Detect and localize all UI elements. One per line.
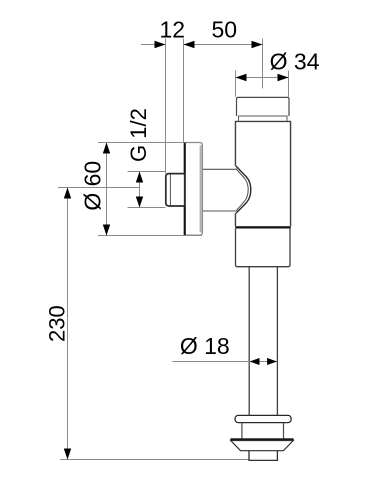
skirt dark top line <box>230 438 293 440</box>
extension line left of dim 12 (spout edge) <box>165 39 167 174</box>
inlet pipe top line <box>202 168 236 170</box>
G1/2 spout nipple <box>166 174 185 206</box>
dim G1/2 top extension <box>128 171 166 173</box>
dim G1/2 down arrow <box>136 197 143 208</box>
outlet pipe left wall <box>248 267 250 416</box>
dim O34 left arrow <box>236 74 247 81</box>
dim 230 line <box>67 188 69 460</box>
dim O60 line <box>106 143 108 236</box>
dim O18 leader <box>173 361 278 363</box>
svg-text:Ø 18: Ø 18 <box>180 333 230 359</box>
inlet pipe bottom line <box>202 210 236 212</box>
wall flange escutcheon <box>184 143 202 236</box>
dim O60 up arrow <box>103 143 110 154</box>
flange rear grey shading <box>200 145 202 232</box>
valve upper body <box>236 122 291 227</box>
skirt trapezoid <box>231 441 294 451</box>
dim O60 down arrow <box>103 225 110 236</box>
dim O18 right arrow <box>267 358 277 365</box>
dim 230 up arrow <box>64 188 71 199</box>
dim O18 left arrow <box>250 358 260 365</box>
svg-text:G 1/2: G 1/2 <box>126 108 151 162</box>
dim 230 top extension <box>58 187 140 189</box>
valve top cap <box>237 97 290 116</box>
dim 50 line <box>184 44 263 46</box>
bottom flange neck right <box>283 423 285 439</box>
svg-text:50: 50 <box>212 17 238 43</box>
dim 50 left arrow <box>184 41 195 48</box>
svg-text:230: 230 <box>44 305 69 342</box>
dim 50 right arrow <box>252 41 263 48</box>
dim O60 top extension <box>98 142 185 144</box>
svg-text:12: 12 <box>160 17 186 43</box>
bottom outlet stub <box>249 451 277 461</box>
spout inner line <box>169 174 171 205</box>
svg-text:Ø 34: Ø 34 <box>270 48 320 74</box>
extension line right of dim 50 (pipe centre) <box>262 39 264 89</box>
cone bulge inner curve <box>236 169 248 211</box>
extension line between dim 12 and 50 (flange face) <box>183 39 185 143</box>
cap neck groove <box>239 116 288 122</box>
dim O34 left extension <box>235 71 237 97</box>
bottom flange neck left <box>241 423 243 439</box>
svg-text:Ø 60: Ø 60 <box>80 161 106 211</box>
dim G1/2 line <box>139 172 141 208</box>
cone bulge outer curve <box>236 166 251 213</box>
dim G1/2 bottom extension <box>128 207 166 209</box>
dim 12 arrow <box>155 41 166 48</box>
dim O60 bottom extension <box>98 235 202 237</box>
bottom flange top bar <box>235 415 291 422</box>
dim O34 right extension <box>288 71 290 97</box>
dark separation band <box>235 226 290 228</box>
dim 12 leader tail <box>141 44 165 46</box>
valve lower body <box>236 229 291 267</box>
dim O34 line <box>236 77 289 79</box>
dim O34 right arrow <box>278 74 289 81</box>
dim 230 bottom extension <box>60 459 249 461</box>
dim G1/2 up arrow <box>136 172 143 183</box>
outlet pipe right wall <box>276 267 278 416</box>
flange front black edge <box>184 143 186 236</box>
dim 230 down arrow <box>64 449 71 460</box>
